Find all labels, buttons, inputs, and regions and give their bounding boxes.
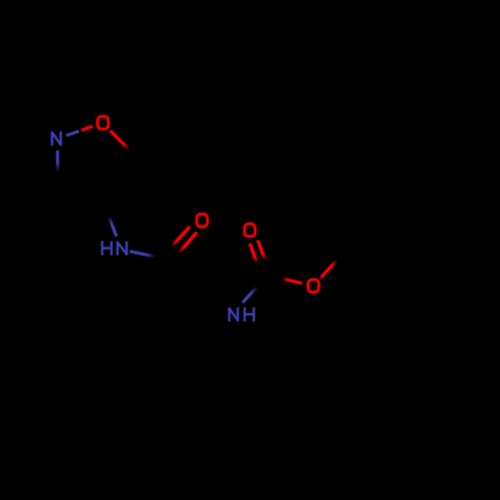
bond C=O amide double line b bbox=[179, 232, 197, 253]
atom O(amide carbonyl) label bbox=[197, 214, 208, 227]
bond N(carbamate)-C blue half fading up-right bbox=[243, 287, 258, 303]
atom N(carbamate) NH label bbox=[229, 307, 254, 321]
bond O(ester)-CH2 red half fading up-right bbox=[321, 261, 337, 278]
bond C=O carbamate double line a bbox=[250, 243, 257, 263]
atom N(amide) HN label bbox=[102, 241, 127, 255]
atom O(carbamate carbonyl) label bbox=[244, 224, 255, 237]
bond C=O amide double line a bbox=[172, 227, 190, 247]
atom O1 isoxazole ring oxygen label bbox=[98, 116, 109, 129]
bond N2-O1 red half bbox=[81, 126, 93, 130]
bond N(amide)-C(amide) blue half fading right bbox=[130, 251, 155, 256]
atom O(ester) label bbox=[308, 280, 319, 293]
bond O1-C5 red half fading bbox=[110, 131, 129, 150]
bond C-O(ester) red half fading left bbox=[282, 279, 302, 284]
atom N2 isoxazole ring nitrogen label bbox=[52, 131, 61, 145]
bond C=O carbamate double line b bbox=[258, 240, 265, 260]
bond N2-O1 blue half bbox=[66, 131, 79, 135]
bond C4-N(amide) blue half fading up bbox=[109, 217, 117, 237]
bond N2=C3 blue half fading bbox=[56, 151, 59, 173]
